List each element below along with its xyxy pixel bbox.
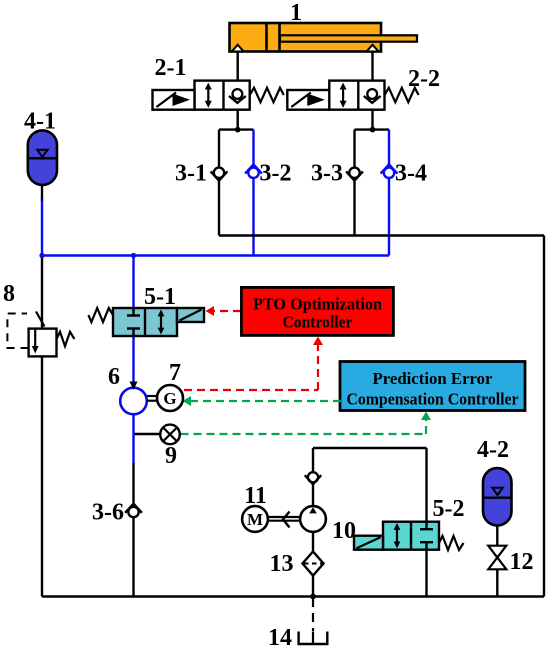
filter 13 (303, 552, 324, 576)
wire: blue right side of bridge 2 (388, 130, 390, 256)
svg-text:Compensation Controller: Compensation Controller (347, 390, 519, 409)
bridge 1 frame (219, 130, 254, 236)
red control wire: PTO controller to valve 5-1 (206, 306, 242, 316)
wire: valve 5-2 to bottom rail (425, 550, 427, 597)
wire: valve 2-2 to bridge 2 top (371, 102, 373, 130)
svg-text:8: 8 (3, 281, 15, 307)
suction line to tank 14 (312, 598, 314, 631)
svg-text:1: 1 (290, 0, 302, 26)
junction on blue header (39, 253, 44, 258)
wire: black down to bottom rail (132, 463, 134, 597)
valve 5-2 (383, 522, 439, 550)
svg-text:6: 6 (108, 364, 120, 390)
svg-text:PTO Optimization: PTO Optimization (253, 295, 383, 314)
wire: valve 2-1 to bridge 1 top (236, 102, 238, 130)
svg-text:3-1: 3-1 (175, 161, 207, 187)
bridge 2 frame (355, 130, 390, 236)
red control wire: generator 7 to PTO controller (184, 337, 323, 391)
pump 10 (300, 506, 326, 532)
check valve 3-4 (381, 164, 398, 178)
shutoff valve 12 (488, 546, 506, 570)
hydraulic motor 6 (120, 382, 147, 415)
wire: cylinder left port to valve 2-1 (236, 50, 238, 90)
spring of valve 5-1 (88, 308, 113, 322)
check valve 3-6 (125, 504, 142, 518)
svg-text:2-1: 2-1 (155, 55, 187, 81)
svg-text:5-1: 5-1 (144, 284, 176, 310)
wire: left edge vertical (41, 256, 43, 597)
svg-text:3-3: 3-3 (311, 161, 343, 187)
svg-text:2-2: 2-2 (408, 66, 440, 92)
wire: tap to sensor 9 (134, 433, 161, 435)
tank 14 (299, 632, 328, 645)
wire: cylinder right port to valve 2-2 (371, 50, 373, 90)
junction at bridge 1 top (235, 127, 241, 133)
svg-text:5-2: 5-2 (433, 496, 465, 522)
accumulator 4-2 (483, 468, 512, 526)
check valve above pump 10 (305, 472, 321, 506)
junction: blue tee to valve 5-1 (131, 253, 136, 258)
valve 5-1 (113, 308, 177, 336)
accumulator 4-1 (28, 130, 57, 255)
sensor 9 (160, 425, 180, 445)
svg-text:4-2: 4-2 (477, 437, 509, 463)
electric motor 11 (242, 506, 268, 532)
wire: blue right side of bridge 1 (252, 130, 254, 256)
svg-text:10: 10 (332, 518, 356, 544)
wire: blue high-pressure header (42, 254, 389, 256)
wire: filter 13 to bottom rail (312, 576, 314, 597)
wire: bottom rail (42, 595, 544, 597)
svg-text:7: 7 (169, 360, 181, 386)
svg-text:3-4: 3-4 (395, 161, 427, 187)
svg-text:4-1: 4-1 (24, 109, 56, 135)
svg-text:9: 9 (165, 443, 177, 469)
spring of valve 5-2 (439, 536, 464, 550)
wire: blue drop to valve 5-1 (132, 256, 134, 309)
svg-text:M: M (247, 510, 263, 529)
wire: pump 10 to filter 13 (312, 532, 314, 551)
solenoid of valve 5-1 (177, 308, 204, 322)
shaft between motor 11 and pump 10 (268, 512, 300, 528)
Prediction Error Compensation Controller box (340, 362, 525, 411)
wire: valve 12 to bottom rail (496, 569, 498, 596)
spring of valve 2-1 (250, 88, 284, 102)
green control wire: sensor 9 to compensation controller (181, 412, 432, 435)
svg-text:11: 11 (244, 483, 267, 509)
wire: right edge down (543, 236, 545, 597)
check valve 3-2 (245, 164, 262, 178)
valve 2-2 (329, 81, 384, 110)
solenoid of valve 2-2 (287, 90, 329, 110)
svg-text:12: 12 (510, 549, 534, 575)
check valve 3-3 (346, 168, 363, 181)
generator 7 (157, 385, 183, 411)
junction at bridge 2 top (370, 127, 376, 133)
cylinder 1 (230, 23, 418, 52)
svg-text:G: G (163, 389, 176, 408)
svg-text:13: 13 (270, 551, 294, 577)
green control wire: compensation controller to generator 7 (183, 396, 342, 406)
wire: blue from valve 5-1 to motor 6 (132, 336, 134, 389)
wire: accumulator 4-2 to valve 12 (496, 526, 498, 547)
spring of valve 2-2 (385, 88, 419, 102)
svg-text:14: 14 (268, 625, 292, 651)
wire: blue below motor 6 (132, 414, 134, 463)
relief valve 8 (7, 312, 74, 357)
svg-text:3-2: 3-2 (260, 161, 292, 187)
wire: bridge bottom rail to right edge (219, 234, 544, 236)
PTO Optimization Controller box (241, 287, 393, 335)
svg-text:Prediction Error: Prediction Error (373, 369, 493, 388)
junction on bottom rail (310, 594, 316, 600)
svg-text:3-6: 3-6 (92, 500, 124, 526)
check valve 3-1 (211, 168, 228, 181)
solenoid of valve 5-2 (354, 536, 383, 550)
svg-text:Controller: Controller (283, 313, 353, 332)
shaft between motor 6 and generator 7 (147, 396, 157, 401)
valve 2-1 (195, 81, 250, 110)
wire: charge pump loop top (313, 448, 427, 522)
solenoid of valve 2-1 (153, 90, 195, 110)
